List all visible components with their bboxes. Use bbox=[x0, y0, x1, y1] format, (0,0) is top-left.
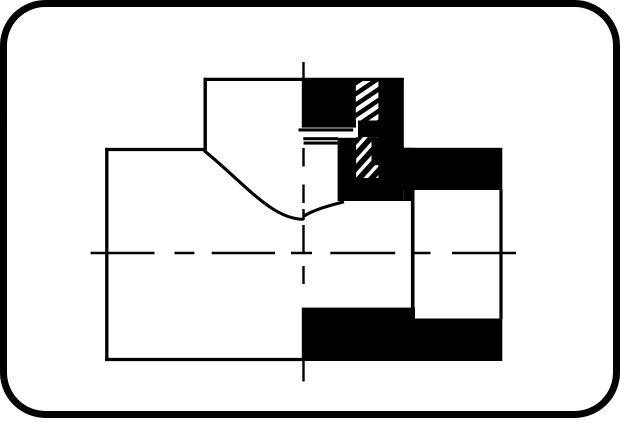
section fill: branch left block bbox=[302, 79, 356, 128]
outlet end face line bbox=[499, 190, 502, 320]
hatch: branch threads lower bbox=[356, 137, 379, 178]
bore end face line bbox=[411, 190, 415, 320]
section fill: outlet bottom wall left bbox=[302, 308, 415, 361]
section fill: outlet top wall bbox=[403, 148, 502, 190]
chamfer line C1 bbox=[303, 137, 338, 140]
hatch: branch threads upper bbox=[356, 78, 379, 121]
chamfer line C2 bbox=[304, 142, 338, 145]
horizontal centerline bbox=[91, 252, 516, 254]
body top line bbox=[105, 148, 206, 151]
section fill: body web below branch bbox=[338, 138, 357, 201]
hatch lower right dark patch bbox=[372, 137, 379, 165]
fillet curve left (view half) bbox=[204, 151, 304, 220]
branch top line bbox=[204, 78, 404, 81]
fillet curve right (section half) bbox=[304, 202, 345, 217]
branch left line bbox=[203, 78, 206, 151]
vertical centerline bbox=[302, 62, 304, 382]
section fill: branch right wall bbox=[378, 78, 403, 201]
thread end line B bbox=[299, 128, 354, 131]
body bottom line bbox=[105, 358, 303, 361]
section fill: outlet bottom wall right bbox=[414, 319, 502, 362]
body left line bbox=[105, 148, 108, 361]
hatch interruption bbox=[358, 121, 379, 138]
